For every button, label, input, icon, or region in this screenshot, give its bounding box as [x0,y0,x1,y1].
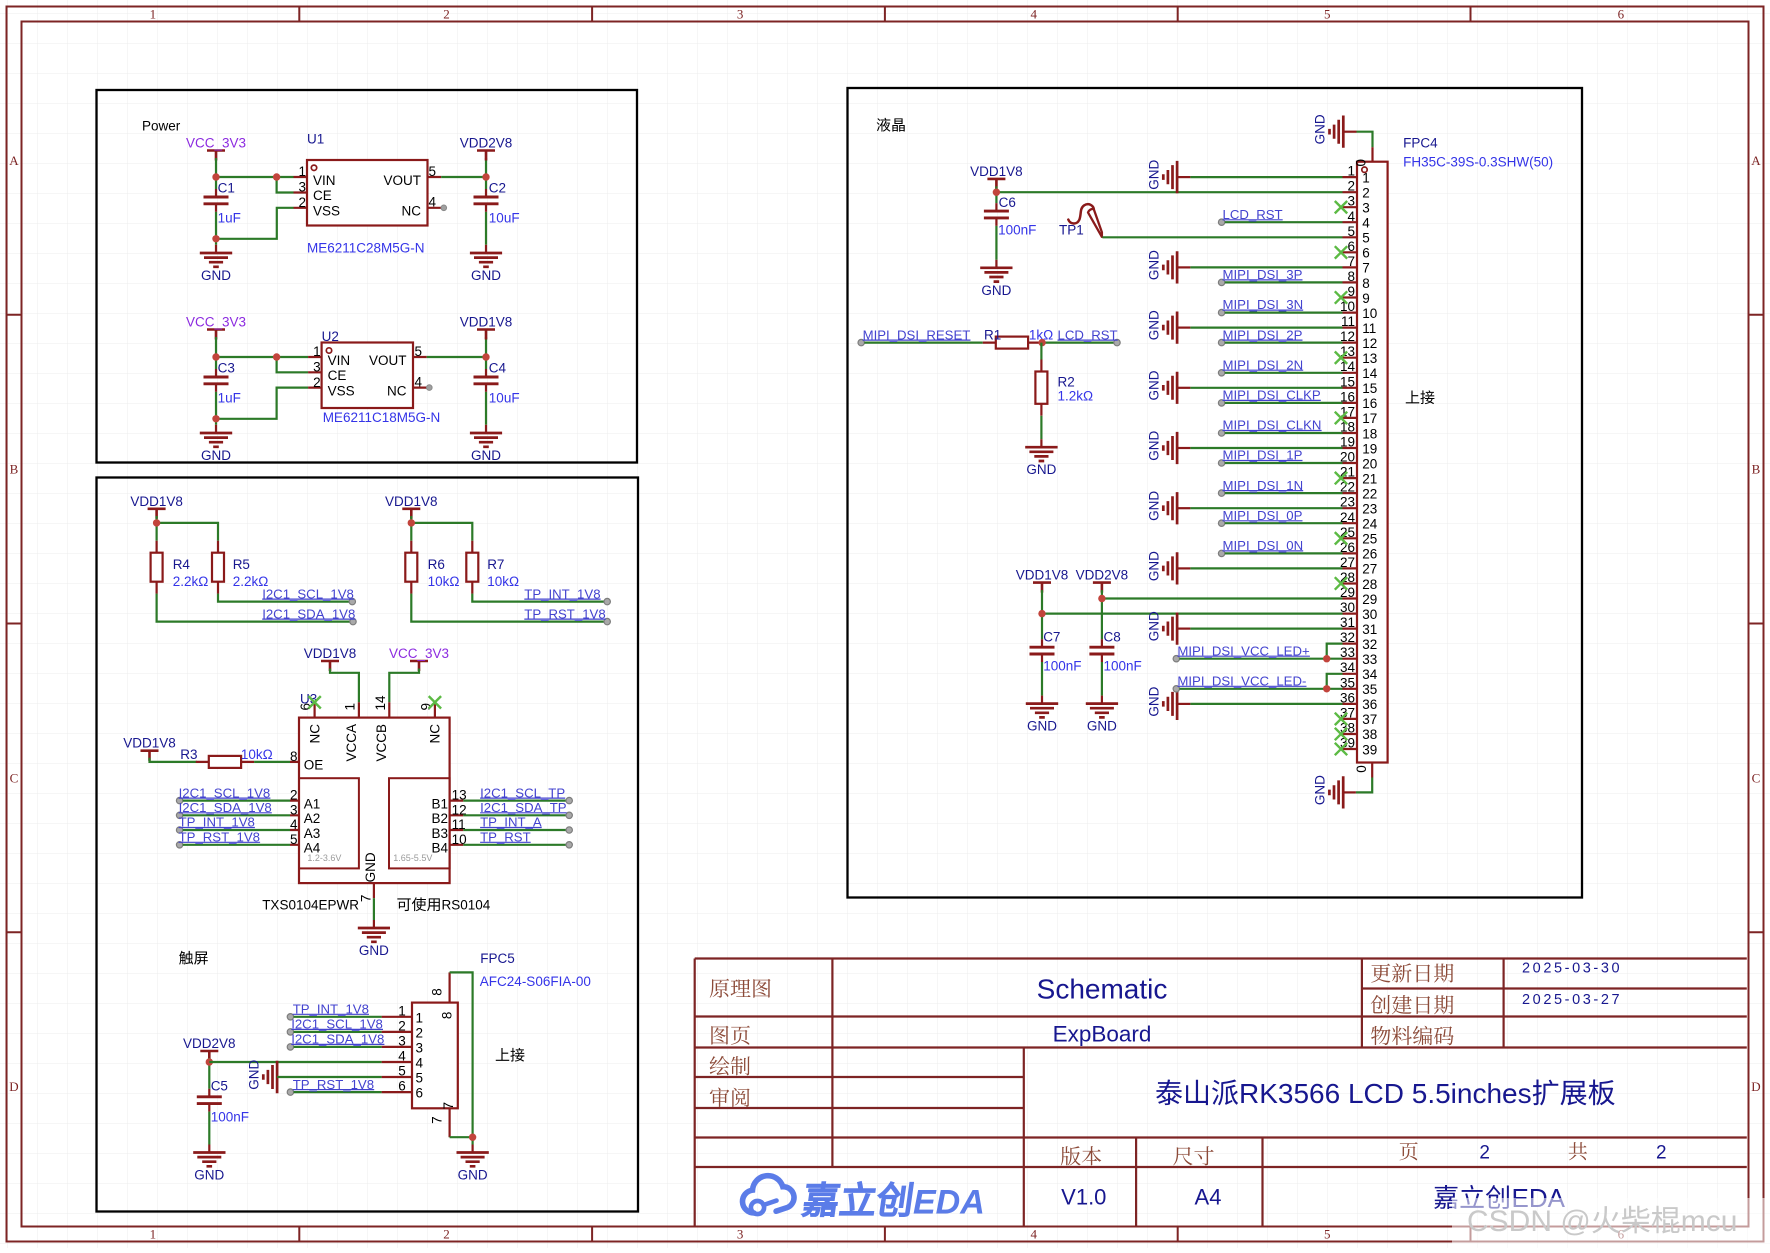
svg-text:100nF: 100nF [1043,658,1081,673]
svg-text:1.2-3.6V: 1.2-3.6V [307,853,341,863]
wire VDD1V8 to FPC4 pin30 [1038,590,1342,639]
capacitor C4 [474,360,520,405]
svg-text:B3: B3 [431,826,448,841]
svg-text:A: A [1751,153,1761,168]
svg-text:1uF: 1uF [218,391,241,406]
power flag VCC_3V3 (U3 VCCB) [389,646,449,671]
net label TP_INT_1V8 [524,586,600,601]
svg-text:5: 5 [1347,224,1355,239]
svg-text:4: 4 [1030,1227,1037,1242]
power flag VDD1V8 (C6) [970,164,1023,189]
svg-text:GND: GND [1146,491,1161,521]
svg-text:6: 6 [416,1086,424,1101]
net label MIPI_DSI_3P (FPC4 pin8) [1218,267,1342,285]
ground GND (C3) [200,425,232,463]
wire VDD1V8 to R6/R7 [408,516,473,541]
net label MIPI_DSI_CLKN (FPC4 pin18) [1218,418,1342,436]
capacitor C7 [1030,629,1082,703]
svg-text:GND: GND [1146,370,1161,400]
net label I2C1_SCL_TP (U3 B1) [463,785,572,804]
svg-text:5: 5 [290,832,298,847]
watermark CSDN @火柴棍mcu [1452,1198,1770,1248]
wire R4 to I2C1_SDA_1V8 [157,594,357,625]
net port I2C1_SCL_1V8 (FPC5 pin2) [287,1017,383,1036]
svg-text:1.65-5.5V: 1.65-5.5V [393,853,432,863]
wire U2 VOUT to VDD1V8 [427,337,490,425]
svg-text:GND: GND [1146,160,1161,190]
svg-text:1: 1 [150,1227,157,1242]
title value A4 [1195,1185,1222,1210]
ground GND (C2) [470,245,502,283]
svg-text:2: 2 [1347,179,1355,194]
svg-text:R7: R7 [487,557,504,572]
svg-text:GND: GND [1026,462,1056,477]
title label 版本 [1061,1146,1101,1165]
svg-text:C8: C8 [1104,629,1121,644]
ground GND sideways (FPC4 pin27) [1146,551,1342,585]
ground GND sideways (FPC4 pin23) [1146,491,1342,525]
no-connect FPC4 pin 21 [1335,472,1347,484]
title label 物料编码 [1371,1026,1454,1045]
logo 嘉立创EDA (JLCEDA) [743,1176,985,1222]
no-connect FPC4 pin 3 [1335,201,1347,213]
svg-text:8: 8 [430,988,445,996]
svg-text:100nF: 100nF [1104,658,1142,673]
ground GND sideways (FPC4 pin1) [1146,160,1342,194]
net port I2C1_SDA_1V8 (FPC5 pin3) [287,1032,384,1051]
svg-text:10kΩ: 10kΩ [428,574,460,589]
svg-text:3: 3 [737,1227,744,1242]
wire VDD1V8 to FPC4 pin2 [993,186,1343,203]
no-connect FPC4 pin 39 [1335,743,1347,755]
svg-text:0: 0 [1354,765,1369,773]
wire U1 VSS to GND [212,208,293,245]
svg-text:30: 30 [1340,600,1355,615]
ground GND sideways (FPC4 pin31) [1146,611,1342,645]
no-connect FPC4 pin 17 [1335,412,1347,424]
net label TP_RST (U3 B4) [463,830,572,849]
svg-text:1: 1 [150,7,157,22]
power flag VCC_3V3 [186,136,246,161]
svg-text:GND: GND [1146,430,1161,460]
ground GND sideways (FPC4 pin11) [1146,310,1342,344]
power flag VDD2V8 [460,136,513,161]
svg-text:TP1: TP1 [1059,223,1084,238]
wire VCC_3V3 to U3 pin14 [389,669,419,703]
svg-text:mcu: mcu [1681,1205,1738,1238]
svg-text:7: 7 [358,895,373,903]
resistor R3 10k [180,747,272,768]
svg-text:GND: GND [1146,551,1161,581]
svg-text:10uF: 10uF [489,211,520,226]
title value 2025-03-30 [1522,960,1622,976]
svg-text:100nF: 100nF [211,1110,249,1125]
svg-text:23: 23 [1362,502,1377,517]
svg-text:R1: R1 [984,328,1001,343]
title label 图页 [711,1026,750,1045]
svg-text:7: 7 [1362,261,1370,276]
svg-text:C: C [1752,770,1761,785]
svg-text:VDD2V8: VDD2V8 [183,1036,236,1051]
svg-text:38: 38 [1362,727,1377,742]
ground GND sideways (FPC4 pin15) [1146,370,1342,404]
svg-text:VCCA: VCCA [344,724,359,762]
svg-text:10kΩ: 10kΩ [241,747,273,762]
svg-text:VDD1V8: VDD1V8 [970,164,1023,179]
svg-text:VIN: VIN [328,353,351,368]
svg-text:5: 5 [1362,231,1370,246]
svg-text:3: 3 [416,1040,424,1055]
wire R3 to U3 OE [254,761,290,763]
wire TP1 to FPC4 pin5 [1102,236,1342,238]
svg-text:NC: NC [428,724,443,744]
capacitor C6 [984,195,1036,268]
section box touch (触屏) [97,478,639,1212]
svg-text:C2: C2 [489,180,506,195]
text 上接 (FPC4) [1406,390,1435,404]
IC U2 ME6211C18M5G-N LDO regulator [308,329,440,425]
svg-text:VIN: VIN [313,173,336,188]
resistor R4 2.2k [151,541,209,594]
svg-text:2: 2 [1479,1142,1490,1163]
svg-text:26: 26 [1362,547,1377,562]
svg-text:1uF: 1uF [218,211,241,226]
net label MIPI_DSI_VCC_LED- (FPC4 pins 34/35) [1173,674,1342,693]
svg-text:5: 5 [1324,1227,1331,1242]
svg-text:19: 19 [1362,441,1377,456]
svg-text:1.2kΩ: 1.2kΩ [1058,389,1094,404]
svg-text:C: C [10,770,19,785]
svg-text:4: 4 [416,1056,424,1071]
ground GND (C5) [193,1153,225,1183]
title label 原理图 [710,979,771,998]
svg-text:4: 4 [1030,7,1037,22]
svg-text:5: 5 [1324,7,1331,22]
svg-text:31: 31 [1362,622,1377,637]
net label MIPI_DSI_CLKP (FPC4 pin16) [1218,388,1342,406]
svg-text:20: 20 [1362,456,1377,471]
svg-text:2025-03-27: 2025-03-27 [1522,992,1622,1008]
no-connect FPC4 pin 13 [1335,352,1347,364]
svg-text:4: 4 [415,375,423,390]
svg-text:C1: C1 [218,180,235,195]
svg-text:CSDN @: CSDN @ [1467,1205,1591,1238]
svg-text:GND: GND [1313,775,1328,805]
svg-text:5: 5 [416,1071,424,1086]
title value 2025-03-27 [1522,992,1622,1008]
ground GND sideways (FPC4 pin7) [1146,250,1342,284]
svg-text:1: 1 [343,703,358,711]
svg-text:FH35C-39S-0.3SHW(50): FH35C-39S-0.3SHW(50) [1403,155,1553,170]
net label MIPI_DSI_1P (FPC4 pin20) [1218,448,1342,466]
no-connect FPC4 pin 25 [1335,532,1347,544]
net port TP_INT_1V8 (FPC5 pin1) [287,1002,381,1021]
svg-text:10: 10 [1362,306,1377,321]
svg-text:4: 4 [290,817,298,832]
svg-text:9: 9 [1362,291,1370,306]
resistor R6 10k [405,541,459,594]
resistor R5 2.2k [212,541,268,594]
svg-text:CE: CE [313,188,332,203]
svg-text:R6: R6 [428,557,445,572]
net label MIPI_DSI_2N (FPC4 pin14) [1218,357,1342,376]
title label 尺寸 [1173,1146,1213,1165]
title value Schematic [1037,974,1168,1005]
svg-text:29: 29 [1362,592,1377,607]
svg-text:1: 1 [298,164,306,179]
ground GND (C6) [980,268,1012,298]
svg-text:VSS: VSS [313,203,340,218]
power flag VDD1V8 (R6/R7) [385,494,438,519]
svg-text:8: 8 [290,749,298,764]
ground GND (C7) [1026,704,1058,734]
svg-text:3: 3 [1347,194,1355,209]
svg-text:C3: C3 [218,360,235,375]
svg-text:10kΩ: 10kΩ [487,574,519,589]
net label MIPI_DSI_0P (FPC4 pin24) [1218,508,1342,526]
svg-text:2.2kΩ: 2.2kΩ [173,574,209,589]
svg-text:VCC_3V3: VCC_3V3 [389,646,449,661]
net label I2C1_SDA_TP (U3 B2) [463,800,572,819]
wire R6 to TP_RST_1V8 [411,594,610,625]
svg-text:35: 35 [1362,682,1377,697]
net label MIPI_DSI_1N (FPC4 pin22) [1218,478,1342,497]
svg-text:3: 3 [313,360,321,375]
resistor R1 1k (MIPI_DSI_RESET) [858,327,1053,348]
net label LCD_RST (R1 out) [1038,327,1120,346]
svg-text:3: 3 [398,1033,406,1048]
svg-text:R4: R4 [173,557,191,572]
svg-text:24: 24 [1362,517,1378,532]
svg-text:GND: GND [1146,310,1161,340]
net label MIPI_DSI_0N (FPC4 pin26) [1218,538,1342,557]
svg-text:VDD1V8: VDD1V8 [130,494,183,509]
svg-text:VDD2V8: VDD2V8 [460,136,513,151]
wire VDD1V8 to U3 pin1 [330,669,359,703]
svg-text:A: A [9,153,19,168]
title label 页 2 共 2 [1400,1142,1667,1163]
svg-text:B1: B1 [431,796,448,811]
svg-text:1: 1 [1362,170,1370,185]
svg-text:CE: CE [328,368,347,383]
power flag VDD2V8 (C8) [1076,568,1129,593]
connector FPC4 FH35C-39S-0.3SHW(50) [1340,136,1553,778]
svg-text:C4: C4 [489,360,507,375]
wire VDD1V8 to R4/R5 [153,516,218,541]
svg-text:1: 1 [313,344,321,359]
svg-text:FPC4: FPC4 [1403,136,1438,151]
capacitor C1 [204,180,241,225]
capacitor C5 with VDD2V8 [183,1036,249,1153]
svg-text:GND: GND [471,448,501,463]
ground GND sideways (FPC5 pin5) [246,1059,381,1093]
svg-text:U3: U3 [300,692,317,707]
IC U1 ME6211C28M5G-N LDO regulator [294,132,447,256]
svg-text:GND: GND [1146,250,1161,280]
svg-text:D: D [1751,1079,1760,1094]
svg-text:2: 2 [416,1025,424,1040]
svg-text:GND: GND [1146,611,1161,641]
ground GND (C4) [470,425,502,463]
title label 审阅 [710,1087,750,1106]
power flag VCC_3V3 (U2) [186,315,246,340]
svg-text:5: 5 [398,1064,406,1079]
svg-text:6: 6 [1362,246,1370,261]
svg-text:B4: B4 [431,841,448,856]
svg-text:28: 28 [1362,577,1377,592]
title label 更新日期 [1371,963,1453,982]
svg-text:2: 2 [443,1227,450,1242]
svg-text:11: 11 [1362,321,1376,336]
svg-text:GND: GND [1146,686,1161,716]
svg-text:1: 1 [398,1003,406,1018]
title value V1.0 [1061,1185,1106,1210]
svg-text:RS0104: RS0104 [442,898,491,913]
svg-text:2: 2 [313,375,321,390]
svg-text:VDD1V8: VDD1V8 [304,646,357,661]
section box Power [97,90,638,463]
title label 创建日期 [1371,995,1454,1014]
net port TP_INT_1V8 (U3 A3) [176,815,290,834]
ground GND (U3) [358,920,390,958]
svg-text:8: 8 [440,1012,455,1020]
svg-text:2: 2 [443,7,450,22]
wire U2 VSS to GND [212,388,308,425]
ground GND sideways (FPC4 pin19) [1146,430,1342,464]
svg-text:7: 7 [441,1102,456,1110]
svg-text:OE: OE [304,758,324,773]
text 上接 (FPC5) [496,1048,525,1062]
svg-text:33: 33 [1362,652,1377,667]
svg-text:17: 17 [1362,411,1377,426]
svg-text:FPC5: FPC5 [480,951,515,966]
svg-text:GND: GND [201,448,231,463]
capacitor C3 [204,360,241,405]
svg-text:ME6211C28M5G-N: ME6211C28M5G-N [307,240,425,255]
svg-text:C6: C6 [999,195,1016,210]
svg-text:25: 25 [1362,532,1377,547]
svg-text:GND: GND [471,268,501,283]
svg-text:22: 22 [1362,486,1377,501]
svg-text:B: B [1752,462,1761,477]
svg-text:TXS0104EPWR: TXS0104EPWR [262,898,359,913]
wire VDD2V8 to FPC5 pin4 [209,1061,381,1063]
net label LCD_RST (FPC4 pin4) [1218,207,1342,226]
resistor R2 1.2k [1035,343,1093,448]
section label 液晶 [877,118,905,132]
svg-text:A1: A1 [304,796,321,811]
svg-text:VDD2V8: VDD2V8 [1076,568,1129,583]
title main 泰山派RK3566 LCD 5.5inches扩展板 [1156,1078,1615,1109]
svg-text:12: 12 [1362,336,1377,351]
svg-text:27: 27 [1362,562,1377,577]
svg-text:4: 4 [1362,216,1370,231]
ground GND sideways (FPC4 pin36) [1146,686,1342,720]
svg-text:2: 2 [398,1018,406,1033]
net label TP_INT_A (U3 B3) [463,815,572,834]
svg-text:C7: C7 [1043,629,1060,644]
svg-text:RK3566 LCD 5.5inches: RK3566 LCD 5.5inches [1239,1078,1532,1109]
power flag VDD1V8 (U2 out) [460,315,513,340]
svg-text:5: 5 [429,164,437,179]
svg-text:4: 4 [429,195,437,210]
svg-text:GND: GND [359,943,389,958]
no-connect FPC4 pin 38 [1335,728,1347,740]
resistor R7 10k [466,541,519,594]
net label I2C1_SCL_1V8 [262,586,354,601]
title block table [695,959,1747,1227]
net port TP_RST_1V8 (U3 A4) [176,830,290,849]
svg-text:6: 6 [398,1079,406,1094]
svg-text:100nF: 100nF [998,223,1036,238]
svg-text:37: 37 [1362,712,1377,727]
section box LCD (液晶) [848,88,1583,898]
svg-text:GND: GND [458,1168,488,1183]
svg-text:A4: A4 [1195,1185,1222,1210]
ground GND sideways (FPC4 pin0 bottom) [1313,775,1373,809]
svg-text:16: 16 [1362,396,1377,411]
svg-text:R2: R2 [1058,375,1075,390]
ground GND (FPC5) [457,1145,489,1183]
net label MIPI_DSI_VCC_LED+ (FPC4 pins 32/33) [1173,643,1342,662]
svg-text:VDD1V8: VDD1V8 [1016,568,1069,583]
title label 绘制 [710,1056,750,1075]
svg-text:1: 1 [416,1010,424,1025]
svg-text:10uF: 10uF [489,391,520,406]
svg-text:VDD1V8: VDD1V8 [460,315,513,330]
svg-text:AFC24-S06FIA-00: AFC24-S06FIA-00 [480,974,591,989]
svg-text:A2: A2 [304,811,321,826]
no-connect FPC4 pin 6 [1335,246,1347,258]
svg-text:Power: Power [142,119,181,134]
svg-text:VDD1V8: VDD1V8 [123,736,176,751]
svg-text:36: 36 [1362,697,1377,712]
svg-text:2: 2 [290,788,298,803]
net port I2C1_SCL_1V8 (U3 A1) [176,785,290,804]
svg-text:R5: R5 [233,557,250,572]
svg-text:NC: NC [387,384,407,399]
ground GND (C8) [1086,704,1118,734]
net label MIPI_DSI_3N (FPC4 pin10) [1218,297,1342,316]
svg-text:ME6211C18M5G-N: ME6211C18M5G-N [323,410,441,425]
net label TP_RST_1V8 [524,606,606,621]
no-connect U3 pin 6 [308,696,320,708]
connector FPC5 AFC24-S06FIA-00 [382,951,591,1137]
svg-text:4: 4 [1347,209,1355,224]
test point TP1 [1059,204,1102,237]
svg-text:34: 34 [1362,667,1378,682]
svg-text:GND: GND [1087,719,1117,734]
svg-text:30: 30 [1362,607,1377,622]
svg-text:R3: R3 [180,747,197,762]
title value ExpBoard [1053,1021,1152,1046]
net label I2C1_SDA_1V8 [262,606,355,621]
wire R7 to TP_INT_1V8 [472,594,610,605]
no-connect FPC4 pin 9 [1335,291,1347,303]
svg-text:C5: C5 [211,1079,228,1094]
svg-text:29: 29 [1340,585,1355,600]
IC U3 TXS0104EPWR level shifter [290,692,467,903]
svg-text:2: 2 [1656,1142,1667,1163]
svg-text:VDD1V8: VDD1V8 [385,494,438,509]
ground GND (C1) [200,245,232,283]
svg-text:ExpBoard: ExpBoard [1053,1021,1152,1046]
svg-text:6: 6 [1618,7,1625,22]
svg-text:13: 13 [1362,351,1377,366]
no-connect FPC4 pin 28 [1335,577,1347,590]
no-connect FPC4 pin 37 [1335,713,1347,725]
svg-text:18: 18 [1362,426,1377,441]
